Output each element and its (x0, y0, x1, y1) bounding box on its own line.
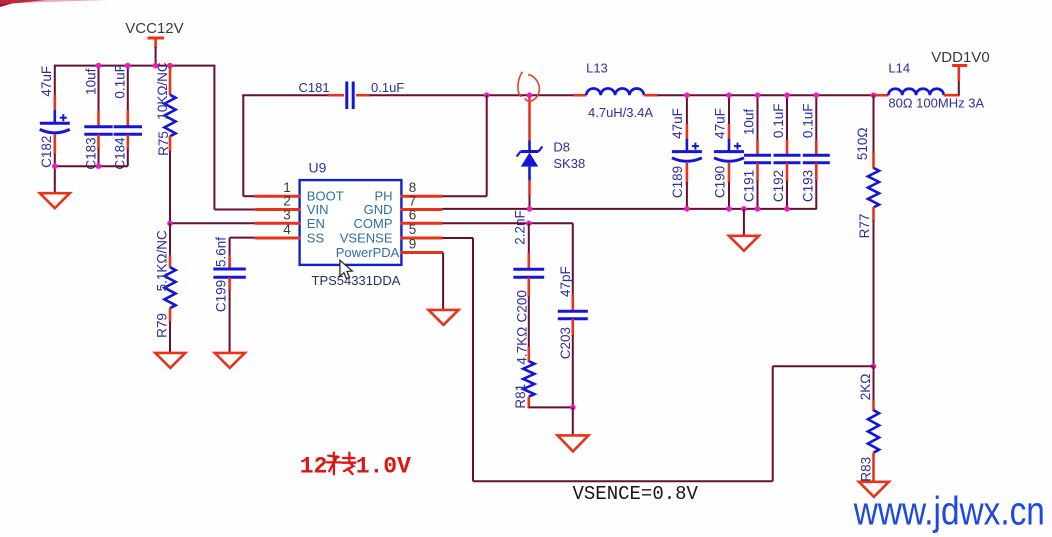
label 0.1uF (C184) (112, 64, 127, 99)
capacitor C182 (40, 65, 70, 167)
label 510 Ohm (R77) (855, 127, 870, 160)
annotation red scribble on switch node (518, 72, 539, 101)
svg-text:SS: SS (307, 231, 325, 246)
svg-text:5.6nf: 5.6nf (213, 237, 228, 267)
wire EN net (170, 222, 255, 224)
node switch node (PH/D8/L13) (527, 92, 533, 98)
svg-text:R81: R81 (513, 384, 528, 409)
label 47pF (558, 266, 573, 297)
wire C181 right to PH node (356, 94, 574, 97)
capacitor C190 (714, 95, 744, 209)
capacitor C191 (744, 95, 771, 209)
svg-text:COMP: COMP (354, 216, 393, 231)
svg-text:L13: L13 (586, 61, 608, 76)
svg-text:C191: C191 (742, 170, 757, 202)
label 47uF (39, 66, 54, 97)
capacitor C192 (774, 95, 801, 209)
svg-text:PowerPDA: PowerPDA (336, 245, 400, 260)
label R81 (513, 384, 528, 409)
inductor L13 (574, 89, 659, 96)
wire GND pin to output ground rail (443, 208, 817, 210)
svg-text:2.2nF: 2.2nF (513, 210, 528, 245)
label C189 (670, 166, 685, 198)
node output ground rail junctions (684, 206, 790, 212)
wire PowerPDA to ground (442, 253, 444, 311)
capacitor C189 (672, 95, 702, 209)
svg-text:0.1uF: 0.1uF (771, 104, 786, 139)
label C199 (213, 280, 228, 312)
svg-text:D8: D8 (553, 139, 570, 154)
node COMP/C200 junction (526, 221, 532, 227)
svg-text:SK38: SK38 (553, 156, 585, 171)
svg-text:9: 9 (409, 237, 417, 252)
label 4.7KOhm (R81) (514, 327, 529, 365)
label 12 to 1.0V (red annotation) (300, 453, 411, 480)
capacitor C184 (114, 65, 142, 167)
svg-text:C182: C182 (39, 136, 54, 168)
label 10uf (C191) (742, 109, 757, 136)
label 0.1uF (C192) (771, 104, 786, 139)
svg-text:5: 5 (409, 222, 417, 237)
resistor R77 (868, 95, 879, 366)
svg-text:C190: C190 (712, 166, 727, 198)
wire VCC12V rail (55, 65, 215, 67)
label VSENCE=0.8V (573, 483, 699, 505)
capacitor C181 (347, 82, 353, 110)
svg-text:C184: C184 (112, 137, 127, 170)
svg-text:0.1uF: 0.1uF (371, 80, 404, 95)
label 5.6nf (213, 237, 228, 267)
label D8 (553, 139, 570, 154)
label 47uF (C190) (712, 108, 727, 139)
label R75 (156, 131, 171, 156)
svg-text:7: 7 (409, 194, 417, 209)
node C181/PH junction (484, 92, 490, 98)
svg-text:GND: GND (364, 202, 393, 217)
label R83 (859, 457, 874, 482)
svg-text:10uf: 10uf (83, 68, 98, 95)
wire COMP net (443, 222, 573, 224)
svg-text:5.1KΩ/NC: 5.1KΩ/NC (155, 230, 170, 291)
label C182 (39, 136, 54, 168)
label C192 (771, 170, 786, 202)
svg-text:0.1uF: 0.1uF (800, 104, 815, 139)
label C184 (112, 137, 127, 170)
svg-text:3: 3 (283, 207, 291, 222)
watermark www.jdwx.cn (853, 488, 1045, 533)
wire BOOT to C181 (243, 95, 255, 196)
label 10uf (83, 68, 98, 95)
capacitor C193 (803, 95, 830, 209)
ground (compensation) (558, 407, 589, 451)
svg-text:510Ω: 510Ω (855, 127, 870, 160)
label C203 (558, 327, 573, 359)
node D8 anode / GND rail (527, 206, 533, 212)
svg-text:6: 6 (409, 207, 417, 222)
svg-text:R75: R75 (156, 131, 171, 156)
ground (R83) (859, 482, 889, 497)
capacitor C200 (513, 223, 544, 348)
wire C181 left rail (242, 94, 344, 96)
svg-text:C199: C199 (213, 280, 228, 312)
resistor R83 (868, 366, 879, 482)
ground (output caps) (729, 209, 759, 251)
svg-text:10uf: 10uf (742, 109, 757, 136)
decorative red streak top-left (0, 0, 108, 7)
power symbol VCC12V (125, 20, 183, 66)
label C200 (514, 290, 529, 322)
resistor R79 (164, 223, 175, 353)
inductor L14 (875, 89, 960, 95)
label 2KOhm (R83) (858, 374, 873, 401)
label C181 (299, 80, 330, 95)
ground (left bank) (40, 166, 70, 208)
svg-text:EN: EN (307, 216, 325, 231)
svg-text:TPS54331DDA: TPS54331DDA (312, 273, 401, 288)
label 10KOhm/NC (R75) (155, 62, 170, 120)
svg-text:C203: C203 (558, 327, 573, 359)
label 2.2nF (513, 210, 528, 245)
label R77 (857, 214, 872, 239)
label R79 (155, 313, 170, 338)
svg-text:80Ω 100MHz 3A: 80Ω 100MHz 3A (888, 95, 984, 110)
ground (PowerPDA) (429, 310, 459, 325)
wire L13 to output rail (657, 94, 875, 96)
svg-text:R77: R77 (857, 214, 872, 239)
svg-text:C189: C189 (670, 166, 685, 198)
svg-text:2KΩ: 2KΩ (858, 374, 873, 401)
svg-text:2: 2 (283, 194, 291, 209)
node R75/EN junction (167, 221, 173, 227)
node R81/C203 junction (570, 405, 576, 411)
svg-text:VDD1V0: VDD1V0 (931, 49, 989, 66)
svg-text:R79: R79 (155, 313, 170, 338)
label 4.7uH/3.4A (588, 105, 653, 120)
svg-text:R83: R83 (859, 457, 874, 482)
label U9 (309, 160, 327, 176)
capacitor C183 (84, 65, 112, 167)
label C183 (83, 137, 98, 169)
svg-text:0.1uF: 0.1uF (112, 64, 127, 99)
label 0.1uF (C181) (371, 80, 404, 95)
node output rail junctions (684, 92, 876, 98)
label 5.1KOhm/NC (R79) (155, 230, 170, 291)
power symbol VDD1V0 (931, 49, 989, 95)
svg-text:VSENCE=0.8V: VSENCE=0.8V (573, 483, 699, 505)
svg-text:C200: C200 (514, 290, 529, 322)
svg-text:U9: U9 (309, 160, 327, 176)
label L14 (888, 61, 910, 76)
svg-text:L14: L14 (888, 61, 910, 76)
svg-text:VIN: VIN (307, 202, 329, 217)
wire PH vertical (443, 95, 487, 196)
resistor R75 (164, 66, 175, 224)
capacitor C203 (558, 223, 588, 407)
U9 pin names (307, 189, 400, 260)
ground (R79) (155, 353, 185, 368)
svg-text:47uF: 47uF (712, 108, 727, 139)
label TPS54331DDA (312, 273, 401, 288)
U9 pin numbers (283, 180, 416, 251)
label C193 (800, 170, 815, 202)
label 47uF (C189) (670, 108, 685, 139)
svg-text:VCC12V: VCC12V (125, 20, 183, 37)
label L13 (586, 61, 608, 76)
wire VSENSE feedback net (443, 238, 874, 481)
ground (C199) (215, 353, 245, 368)
capacitor C199 (213, 238, 254, 354)
node left bank junctions (52, 63, 173, 169)
svg-text:47uF: 47uF (39, 66, 54, 97)
label SK38 (553, 156, 585, 171)
svg-text:VSENSE: VSENSE (340, 231, 393, 246)
svg-text:C193: C193 (800, 170, 815, 202)
resistor R81 (523, 347, 534, 408)
svg-text:47uF: 47uF (670, 108, 685, 139)
label 0.1uF (C193) (800, 104, 815, 139)
mouse cursor (340, 260, 352, 278)
svg-text:4.7uH/3.4A: 4.7uH/3.4A (588, 105, 653, 120)
label 80 Ohm 100MHz 3A (888, 95, 984, 110)
svg-text:10KΩ/NC: 10KΩ/NC (155, 62, 170, 120)
svg-text:1.0V: 1.0V (356, 453, 411, 479)
wire left bank ground rail (55, 165, 128, 167)
svg-text:4.7KΩ: 4.7KΩ (514, 327, 529, 365)
svg-text:47pF: 47pF (558, 266, 573, 297)
diode D8 (SK38) (517, 95, 543, 209)
svg-text:12: 12 (300, 453, 328, 479)
svg-text:www.jdwx.cn: www.jdwx.cn (853, 488, 1045, 533)
op-amp U9 (TPS54331DDA regulator) (255, 180, 443, 265)
wire rail to VIN (214, 65, 254, 210)
node feedback junction (871, 364, 877, 370)
wire R81 to C203 foot (529, 406, 573, 408)
svg-text:C192: C192 (771, 170, 786, 202)
label C190 (712, 166, 727, 198)
label C191 (742, 170, 757, 202)
svg-text:C181: C181 (299, 80, 330, 95)
svg-text:4: 4 (283, 222, 291, 237)
